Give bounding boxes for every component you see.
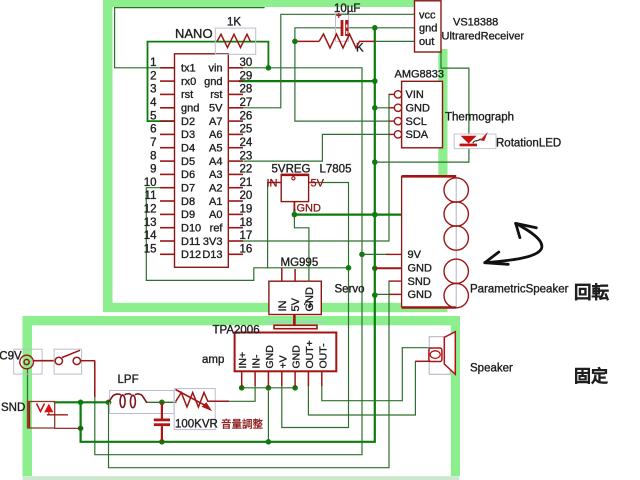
svg-text:25: 25	[240, 124, 253, 136]
resistor R1 1K	[215, 17, 255, 55]
wire LED bottom to gnd	[375, 148, 469, 162]
svg-text:gnd: gnd	[419, 23, 437, 35]
wire LPF mid to pot	[147, 401, 176, 403]
svg-text:A5: A5	[209, 143, 222, 155]
svg-text:D6: D6	[181, 169, 195, 181]
IC ParametricSpeaker box	[402, 176, 457, 307]
svg-text:27: 27	[240, 97, 253, 109]
ground symbol below servo	[274, 315, 317, 329]
IC VS18388 infrared receiver box	[415, 1, 525, 52]
svg-text:22: 22	[240, 164, 253, 176]
resistor K	[297, 34, 375, 55]
NANO right pin stubs 30-16	[228, 68, 243, 255]
node LPF left junction	[106, 400, 112, 406]
svg-text:VS18388: VS18388	[453, 17, 498, 29]
node servo 5V junction	[346, 265, 352, 271]
node cap bottom junction on bus1	[159, 439, 165, 445]
svg-text:1: 1	[150, 57, 156, 69]
svg-text:5: 5	[150, 110, 156, 122]
ParametricSpeaker transducer circles	[444, 178, 468, 308]
svg-text:GND: GND	[291, 345, 303, 369]
svg-text:D12: D12	[181, 249, 201, 261]
svg-text:A2: A2	[209, 183, 222, 195]
wire 1K left / pin5 gnd	[148, 42, 269, 122]
svg-text:5VREG: 5VREG	[272, 164, 311, 176]
svg-text:vin: vin	[208, 63, 222, 75]
svg-text:IN: IN	[267, 177, 278, 189]
svg-text:GND: GND	[264, 345, 276, 369]
svg-text:A7: A7	[209, 116, 222, 128]
TPA2006 pin stubs	[242, 371, 322, 388]
svg-text:23: 23	[240, 150, 253, 162]
svg-text:5V: 5V	[290, 297, 302, 311]
svg-text:L7805: L7805	[320, 164, 352, 176]
svg-text:MG995: MG995	[281, 257, 319, 269]
node LPF-cap junction	[159, 400, 165, 406]
svg-text:OUT+: OUT+	[304, 340, 316, 368]
svg-text:28: 28	[240, 84, 253, 96]
ParametricSpeaker pin stubs	[375, 254, 402, 294]
svg-text:A3: A3	[209, 169, 222, 181]
amplifier U3 TPA2006 box	[202, 325, 336, 372]
svg-text:D7: D7	[181, 183, 195, 195]
node TPA GND1 bus1 dot	[266, 439, 272, 445]
node 7805 gnd junction	[292, 212, 298, 218]
svg-text:DC9V: DC9V	[0, 351, 22, 363]
wire SND net: paramspeaker SND down to bus3	[109, 281, 390, 468]
svg-text:D4: D4	[181, 143, 195, 155]
svg-text:Servo: Servo	[335, 284, 365, 296]
servo info line	[267, 321, 323, 323]
svg-text:SND: SND	[1, 402, 25, 414]
svg-text:GND: GND	[408, 289, 433, 301]
NANO pin names left column	[181, 63, 201, 262]
svg-text:TPA2006: TPA2006	[213, 325, 260, 337]
svg-text:D11: D11	[181, 236, 200, 248]
AMG8833 inverted pin circles and stubs	[389, 91, 402, 138]
wire out row K to VS	[375, 40, 415, 42]
wire TPA OUT+ to speaker	[308, 361, 415, 415]
svg-text:SND: SND	[408, 276, 431, 288]
svg-text:8: 8	[150, 150, 156, 162]
svg-text:9: 9	[150, 164, 156, 176]
svg-text:out: out	[419, 36, 434, 48]
svg-text:UltraredReceiver: UltraredReceiver	[442, 31, 525, 43]
lower section frame (fixed)	[23, 316, 461, 480]
wire SND signal jack to LPF	[55, 401, 110, 403]
svg-text:13: 13	[144, 217, 157, 229]
svg-text:9V: 9V	[408, 249, 422, 261]
svg-text:SCL: SCL	[406, 116, 427, 128]
NANO pin numbers right	[240, 57, 253, 256]
svg-text:10µF: 10µF	[334, 3, 360, 15]
svg-text:A4: A4	[209, 156, 222, 168]
svg-text:amp: amp	[202, 354, 224, 366]
wire sleeve lead to bus1 riser	[55, 427, 81, 429]
svg-text:18: 18	[240, 217, 253, 229]
svg-text:D2: D2	[181, 116, 195, 128]
wire vin row pin30	[240, 68, 362, 255]
wire paramspeaker gnd2 link	[375, 293, 402, 295]
wire pot right to TPA IN-	[229, 386, 255, 401]
svg-text:D10: D10	[181, 223, 201, 235]
wire tx1 pin1 loop	[115, 8, 264, 68]
svg-text:音量調整: 音量調整	[221, 418, 263, 431]
svg-text:100KVR: 100KVR	[175, 419, 218, 431]
svg-text:A1: A1	[209, 196, 222, 208]
wire LED chain from VS box	[441, 52, 469, 135]
svg-text:D3: D3	[181, 129, 195, 141]
wire D7 pin10 to servo IN and 5V rail	[146, 188, 348, 281]
svg-text:GND: GND	[408, 263, 433, 275]
IC U1 NANO (Arduino Nano)	[175, 26, 229, 267]
potentiometer 100KVR	[174, 389, 263, 431]
wire vcc 5V from pin27	[240, 14, 415, 108]
svg-text:ParametricSpeaker: ParametricSpeaker	[470, 284, 569, 296]
svg-text:24: 24	[240, 137, 253, 149]
wire 3V3 pin17 to AMG VIN	[240, 94, 389, 241]
wire 7805 5V output	[282, 183, 349, 428]
svg-text:IN+: IN+	[237, 352, 249, 369]
svg-text:11: 11	[145, 190, 157, 202]
svg-text:OUT-: OUT-	[317, 343, 329, 369]
svg-text:回転: 回転	[574, 283, 609, 303]
svg-text:17: 17	[240, 230, 253, 242]
wire TPA pin-bottom gnd link	[242, 387, 295, 389]
svg-text:tx1: tx1	[181, 63, 196, 75]
wire TPA OUT- to speaker	[322, 348, 403, 401]
svg-text:rx0: rx0	[181, 76, 196, 88]
svg-text:16: 16	[240, 244, 253, 256]
svg-text:D8: D8	[181, 196, 195, 208]
svg-text:21: 21	[240, 177, 253, 189]
node K left junction	[292, 39, 298, 45]
svg-text:AMG8833: AMG8833	[395, 69, 445, 81]
inductor L1 LPF	[109, 374, 175, 414]
regulator U2 5VREG L7805	[267, 164, 352, 215]
svg-text:D9: D9	[181, 209, 195, 221]
svg-text:GND: GND	[406, 103, 431, 115]
wire gnd row pin29 bold	[240, 80, 375, 82]
wire SCL vertical	[295, 41, 389, 121]
svg-text:3: 3	[150, 84, 156, 96]
svg-text:GND: GND	[297, 203, 322, 215]
node vin junction dot	[266, 65, 272, 71]
node paramspeaker 9V junction	[359, 252, 365, 258]
svg-text:A0: A0	[209, 209, 222, 221]
node TPA in+ gnd dots	[239, 385, 245, 391]
svg-text:A6: A6	[209, 129, 222, 141]
svg-text:26: 26	[240, 110, 253, 122]
svg-text:29: 29	[240, 70, 253, 82]
svg-text:7: 7	[150, 137, 156, 149]
speaker SP1	[415, 332, 455, 375]
IC AMG8833 thermograph box	[395, 69, 445, 148]
svg-text:2: 2	[150, 70, 156, 82]
servo MG995 box	[269, 257, 321, 315]
wire gnd bold vertical	[81, 28, 375, 442]
svg-text:Speaker: Speaker	[470, 363, 513, 375]
svg-text:14: 14	[144, 230, 157, 242]
svg-text:gnd: gnd	[204, 76, 222, 88]
node SND-sleeve riser junctions	[78, 400, 84, 406]
svg-text:SDA: SDA	[406, 129, 429, 141]
svg-text:+V: +V	[277, 355, 289, 368]
capacitor C2 (LPF shunt)	[154, 402, 170, 442]
svg-text:固定: 固定	[574, 366, 608, 386]
svg-text:vcc: vcc	[419, 9, 436, 21]
svg-text:IN: IN	[277, 300, 289, 311]
wire 7805 IN drop	[267, 183, 269, 268]
switch S1	[54, 349, 95, 397]
svg-text:NANO: NANO	[175, 26, 213, 41]
svg-text:rst: rst	[210, 89, 222, 101]
wire speaker upper lead	[402, 347, 430, 349]
node gnd junctions on bold vertical	[372, 25, 378, 31]
NANO pin numbers left	[144, 57, 157, 256]
connector DC9V barrel jack	[0, 349, 55, 374]
svg-text:12: 12	[144, 204, 157, 216]
NANO pin names right column	[202, 63, 223, 262]
svg-text:20: 20	[240, 190, 253, 202]
svg-text:LPF: LPF	[118, 374, 139, 386]
wire gnd cap row to VS	[295, 28, 415, 42]
wire TPA GND1 to bus1	[267, 388, 269, 442]
svg-text:5V: 5V	[311, 177, 325, 189]
wire 7805 gnd step to servo gnd	[294, 215, 309, 282]
svg-text:IN-: IN-	[251, 354, 263, 369]
svg-text:1K: 1K	[227, 17, 241, 29]
svg-text:Thermograph: Thermograph	[445, 112, 514, 124]
svg-text:VIN: VIN	[406, 89, 424, 101]
svg-text:ref: ref	[210, 223, 224, 235]
svg-text:D5: D5	[181, 156, 195, 168]
svg-text:4: 4	[150, 97, 157, 109]
wire 9V line to bus2	[95, 254, 362, 454]
upper section frame (rotation)	[103, 0, 448, 312]
connector SND audio jack	[1, 402, 68, 429]
hand-drawn arrow (rotation callout)	[485, 223, 542, 264]
svg-text:D13: D13	[202, 249, 222, 261]
NANO left pin stubs 1-15	[160, 68, 175, 255]
svg-text:rst: rst	[181, 89, 193, 101]
svg-text:30: 30	[240, 57, 253, 69]
svg-text:19: 19	[240, 204, 253, 216]
wire AMG GND stub link	[375, 107, 395, 109]
svg-text:gnd: gnd	[181, 103, 199, 115]
svg-text:6: 6	[150, 124, 156, 136]
svg-text:10: 10	[144, 177, 157, 189]
capacitor C1 10uF polarized	[334, 3, 360, 41]
svg-text:15: 15	[144, 244, 157, 256]
svg-text:RotationLED: RotationLED	[496, 138, 561, 150]
wire paramspeaker 9V stub link	[362, 253, 388, 255]
wire 9V jack sleeve down	[27, 369, 29, 402]
LED RotationLED	[454, 132, 496, 149]
svg-text:3V3: 3V3	[203, 236, 223, 248]
svg-text:5V: 5V	[209, 103, 223, 115]
wire 7805 gnd bold	[294, 210, 401, 215]
wire SDA to pin23	[244, 134, 389, 161]
